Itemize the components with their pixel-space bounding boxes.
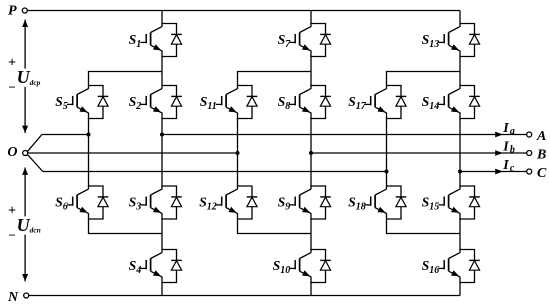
svg-text:−: − [8,227,16,242]
svg-text:+: + [8,203,16,218]
wire N rail (negative dc bus) [29,295,460,297]
junction: O rail to phase B clamp midpoint [236,151,240,155]
wire O upper fan diagonal [27,135,42,152]
junction: O rail to phase C clamp midpoint [385,170,389,174]
svg-text:+: + [8,55,16,70]
wire phase A leg: S4 to N rail [161,282,163,296]
junction: phase A leg to output line [160,133,164,137]
wire phase C leg: S16 to N rail [459,282,461,296]
IGBT S18 with antiparallel diode (lower clamp switch, phase C) [348,185,406,219]
IGBT S14 with antiparallel diode (phase C) [422,85,480,119]
wire P rail (positive dc bus) [27,10,460,12]
wire phase A leg: P rail to S1 [161,11,163,25]
wire O to phase-A clamp midpoint [42,134,89,136]
wire phase C leg: S13 to S14 [459,56,461,86]
svg-text:A: A [536,129,546,144]
svg-text:−: − [8,80,16,95]
junction: phase B leg to output line [309,151,313,155]
terminal N [7,290,29,305]
current arrow Ia [495,132,503,138]
current arrow Ic [495,169,503,175]
IGBT S15 with antiparallel diode (phase C) [422,185,480,219]
wire phase C leg: S14 to S15 (through output node) [459,118,461,187]
wire phase C leg: P rail to S13 [459,11,461,25]
voltage arrow Udcn (O to N) [22,168,28,282]
wire phase C upper clamp: leg to S17 [387,71,461,86]
wire phase A lower clamp: S6 to leg [89,218,163,234]
wire phase A upper clamp: leg to S5 [89,71,163,86]
wire phase B leg: P rail to S7 [310,11,312,25]
wire phase A leg: S2 to S3 (through output node) [161,118,163,187]
IGBT S13 with antiparallel diode (top switch, phase C) [422,23,480,57]
svg-text:O: O [7,145,17,160]
IGBT S1 with antiparallel diode (top switch, phase A) [129,23,182,57]
svg-text:C: C [537,166,547,181]
wire phase A leg: S1 to S2 [161,56,163,86]
svg-text:B: B [536,147,546,162]
svg-text:N: N [7,290,19,305]
IGBT S6 with antiparallel diode (lower clamp switch, phase A) [55,185,108,219]
IGBT S8 with antiparallel diode (phase B) [278,85,331,119]
wire phase C clamp midpoint branch [386,118,388,187]
current arrow Ib [495,150,503,156]
IGBT S7 with antiparallel diode (top switch, phase B) [278,23,331,57]
IGBT S16 with antiparallel diode (bottom switch, phase C) [422,249,480,283]
wire phase C output line [460,171,527,173]
wire phase B lower clamp: S12 to leg [238,218,312,234]
IGBT S2 with antiparallel diode (phase A) [129,85,182,119]
wire phase B output line [311,152,527,154]
wire phase B upper clamp: leg to S11 [238,71,312,86]
wire O to phase-B clamp midpoint (middle rail) [28,152,238,154]
svg-text:P: P [8,4,17,19]
wire phase C leg: S15 to S16 [459,218,461,250]
wire phase B leg: S8 to S9 (through output node) [310,118,312,187]
voltage arrow Udcp (P to O) [22,20,28,133]
IGBT S3 with antiparallel diode (phase A) [129,185,182,219]
label Udcn [16,215,41,235]
IGBT S9 with antiparallel diode (phase B) [278,185,331,219]
wire phase C lower clamp: S18 to leg [387,218,461,234]
wire phase B clamp midpoint branch [237,118,239,187]
wire phase B leg: S9 to S10 [310,218,312,250]
IGBT S11 with antiparallel diode (upper clamp switch, phase B) [200,85,257,119]
terminal B [527,147,547,162]
wire O to phase-C clamp midpoint [43,171,387,173]
wire O lower fan diagonal [27,154,43,171]
IGBT S12 with antiparallel diode (lower clamp switch, phase B) [199,185,257,219]
terminal P [8,4,27,19]
wire phase A clamp midpoint branch [88,118,90,187]
junction: phase C leg to output line [458,170,462,174]
IGBT S17 with antiparallel diode (upper clamp switch, phase C) [348,85,406,119]
IGBT S4 with antiparallel diode (bottom switch, phase A) [129,249,182,283]
label Udcp [16,67,41,87]
wire phase A leg: S3 to S4 [161,218,163,250]
terminal C [527,166,547,181]
wire phase A output line [162,134,527,136]
terminal A [527,129,547,144]
IGBT S5 with antiparallel diode (upper clamp switch, phase A) [55,85,108,119]
wire phase B leg: S7 to S8 [310,56,312,86]
node O (dc-link midpoint terminal) [7,145,27,160]
wire phase B leg: S10 to N rail [310,282,312,296]
IGBT S10 with antiparallel diode (bottom switch, phase B) [273,249,331,283]
junction: O rail to phase A clamp midpoint [87,133,91,137]
